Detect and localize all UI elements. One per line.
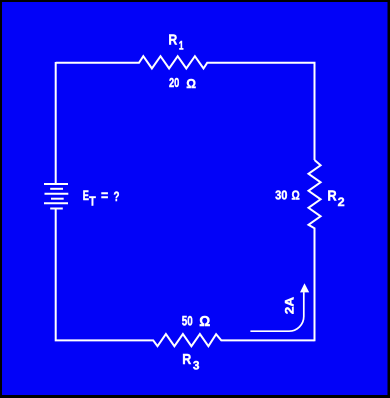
svg-text:=: = (101, 187, 108, 203)
svg-text:?: ? (114, 188, 120, 204)
svg-text:Ω: Ω (292, 188, 300, 203)
svg-text:R: R (182, 351, 191, 368)
svg-text:30: 30 (275, 188, 287, 203)
svg-text:2: 2 (338, 195, 345, 209)
svg-text:20: 20 (169, 75, 179, 90)
svg-text:R: R (327, 188, 336, 205)
svg-text:3: 3 (193, 359, 200, 373)
svg-text:R: R (168, 31, 177, 48)
svg-text:2A: 2A (282, 297, 296, 315)
svg-text:50: 50 (182, 312, 193, 328)
svg-text:Ω: Ω (186, 76, 196, 91)
svg-text:T: T (89, 193, 96, 208)
svg-text:E: E (83, 187, 89, 203)
svg-text:Ω: Ω (199, 314, 210, 330)
svg-text:1: 1 (179, 39, 184, 53)
